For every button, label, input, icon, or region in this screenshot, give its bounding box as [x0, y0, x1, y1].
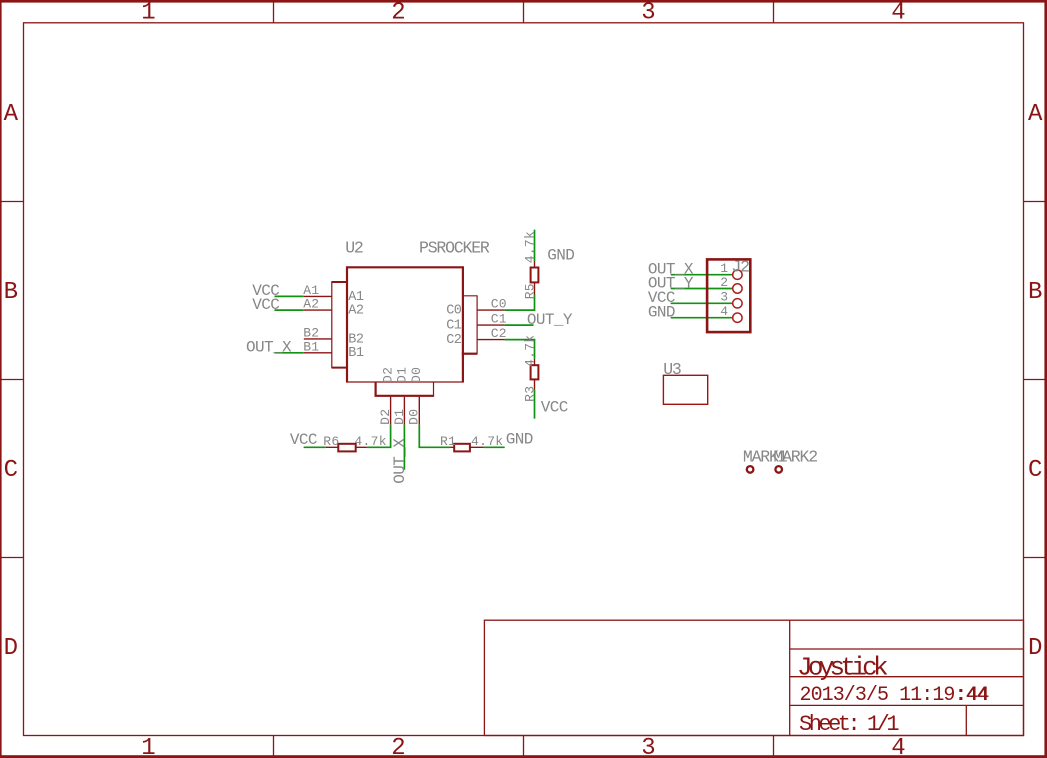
svg-text:B1: B1: [303, 339, 319, 354]
svg-text:U3: U3: [663, 360, 681, 379]
svg-text:C: C: [4, 457, 18, 484]
svg-text:4.7k: 4.7k: [354, 434, 386, 449]
svg-text:1: 1: [141, 735, 155, 758]
svg-text::44: :44: [955, 684, 988, 707]
svg-text:2: 2: [391, 735, 405, 758]
svg-text:VCC: VCC: [252, 296, 279, 314]
svg-text:4.7k: 4.7k: [522, 231, 537, 263]
svg-text:GND: GND: [506, 430, 533, 448]
svg-text:C1: C1: [446, 319, 462, 334]
svg-text:R3: R3: [522, 386, 537, 402]
svg-text:A2: A2: [348, 304, 364, 319]
svg-text:D0: D0: [407, 409, 422, 425]
svg-text:3: 3: [641, 735, 655, 758]
svg-text:OUT_Y: OUT_Y: [527, 311, 573, 329]
svg-text:4.7k: 4.7k: [471, 434, 503, 449]
svg-text:3: 3: [720, 290, 728, 305]
svg-text:4: 4: [891, 0, 905, 27]
svg-text:1: 1: [141, 0, 155, 27]
svg-text:D: D: [4, 635, 18, 662]
svg-text:B2: B2: [303, 326, 319, 341]
svg-text:VCC: VCC: [541, 399, 568, 417]
svg-text:B1: B1: [348, 346, 364, 361]
svg-text:1: 1: [720, 261, 728, 276]
svg-text:A: A: [1028, 101, 1043, 128]
svg-text:4: 4: [720, 304, 728, 319]
svg-text:OUT_X: OUT_X: [246, 339, 292, 357]
svg-text:C2: C2: [491, 326, 507, 341]
svg-text:A2: A2: [303, 297, 319, 312]
svg-text:3: 3: [641, 0, 655, 27]
svg-text:2: 2: [720, 275, 728, 290]
svg-text:MARK2: MARK2: [773, 448, 817, 467]
svg-text:J2: J2: [731, 257, 749, 276]
svg-text:OUT_X: OUT_X: [391, 438, 409, 484]
svg-text:4.7k: 4.7k: [522, 335, 537, 367]
svg-text:C: C: [1028, 457, 1042, 484]
svg-text:R5: R5: [522, 283, 537, 299]
svg-text:4: 4: [891, 735, 905, 758]
svg-text:B2: B2: [348, 332, 364, 347]
svg-text:2: 2: [391, 0, 405, 27]
svg-text:GND: GND: [547, 247, 574, 265]
svg-text:C1: C1: [491, 312, 507, 327]
svg-text:D0: D0: [409, 367, 424, 383]
svg-text:B: B: [4, 279, 18, 306]
svg-text:GND: GND: [648, 304, 675, 322]
svg-text:D: D: [1028, 635, 1042, 662]
svg-text:A: A: [4, 101, 19, 128]
svg-text:R1: R1: [440, 434, 456, 449]
svg-text:PSROCKER: PSROCKER: [419, 239, 490, 258]
svg-text:D2: D2: [381, 367, 396, 383]
svg-text:C0: C0: [491, 297, 507, 312]
svg-text:C0: C0: [446, 304, 462, 319]
svg-text:D1: D1: [394, 367, 409, 383]
svg-text:D1: D1: [392, 409, 407, 425]
svg-text:R6: R6: [323, 434, 339, 449]
svg-text:VCC: VCC: [290, 431, 317, 449]
svg-text:U2: U2: [345, 239, 363, 258]
svg-text:D2: D2: [378, 409, 393, 425]
svg-text:B: B: [1028, 279, 1042, 306]
svg-text:Joystick: Joystick: [797, 652, 888, 682]
svg-text:C2: C2: [446, 333, 462, 348]
svg-text:Sheet: 1/1: Sheet: 1/1: [799, 712, 899, 737]
